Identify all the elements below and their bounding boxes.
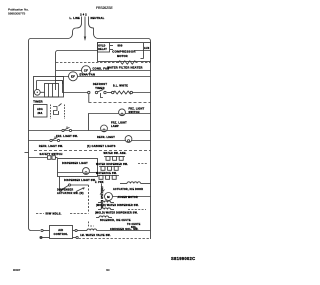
svg-text:5995305775: 5995305775 <box>8 12 25 16</box>
wire neutral-side from plug to right bus <box>89 23 151 239</box>
svg-text:I.M. WATER VALVE SW.: I.M. WATER VALVE SW. <box>80 234 111 237</box>
power plug P1 <box>80 13 88 23</box>
svg-text:FRZ. LIGHT SW.: FRZ. LIGHT SW. <box>56 135 78 138</box>
refr light lamp L2 <box>125 136 132 143</box>
svg-text:WATER FILTER HEATER: WATER FILTER HEATER <box>107 65 142 69</box>
vertical rotated door label <box>100 187 102 209</box>
node REFR. LIGHT SW. label <box>39 145 63 148</box>
svg-text:S8199002C: S8199002C <box>171 256 195 261</box>
water switch stack row1 <box>103 152 126 160</box>
wire defrost heater line <box>63 81 151 93</box>
svg-text:SWITCH: SWITCH <box>129 111 140 114</box>
node PNK label <box>95 182 104 184</box>
node DISPENSER LIGHT SW. label <box>64 179 96 182</box>
svg-text:(MOLD) WATER DISPENSER SW.: (MOLD) WATER DISPENSER SW. <box>96 204 139 207</box>
svg-text:J. PNK: J. PNK <box>95 182 104 184</box>
ice door coil wire <box>120 182 151 184</box>
cabinet boundary dashed mid <box>34 150 151 152</box>
node REFR. LIGHT label <box>97 136 115 139</box>
svg-text:DISPENSER LIGHT: DISPENSER LIGHT <box>62 162 88 165</box>
svg-text:EF: EF <box>71 75 75 79</box>
svg-text:COMPRESSOR: COMPRESSOR <box>112 50 136 54</box>
svg-text:A/D: A/D <box>58 228 63 232</box>
node header model text <box>96 6 113 10</box>
icemaker wire right upper <box>73 229 151 232</box>
wire freezer light line <box>29 130 151 132</box>
svg-text:50W MDLS.: 50W MDLS. <box>46 212 62 216</box>
defrost timer assembly box <box>34 77 64 98</box>
icemaker bracket dashed <box>89 222 95 227</box>
svg-text:30: 30 <box>106 268 110 272</box>
svg-text:WATER DISPENSER SW.: WATER DISPENSER SW. <box>96 163 128 166</box>
wire line-side from plug to left bus <box>29 23 82 231</box>
freezer light switch (door) on left <box>62 126 72 131</box>
evaporator fan motor M2 <box>69 72 78 81</box>
svg-text:CF: CF <box>84 69 88 73</box>
mold water dispenser sw row1 <box>96 201 139 207</box>
icemaker wire upper <box>41 229 50 231</box>
svg-text:M: M <box>107 195 110 199</box>
svg-text:ACTUATOR, ICE DOOR: ACTUATOR, ICE DOOR <box>113 188 143 191</box>
svg-text:WATER/ICE SW.: WATER/ICE SW. <box>96 172 117 175</box>
leader arrow to actuator switch <box>76 187 85 191</box>
defrost timer switch contacts <box>88 89 107 102</box>
node FRZ. LIGHT label <box>111 121 127 127</box>
node 50W MDLS note <box>36 212 88 216</box>
solenoid ice chute row <box>96 216 131 222</box>
node L.LINE label <box>69 16 80 20</box>
compressor labels <box>112 44 136 58</box>
compressor box U-COMP <box>98 43 151 62</box>
svg-text:L. LINE: L. LINE <box>69 16 80 20</box>
node footer date code <box>13 256 195 272</box>
feeder wire from line to compressor <box>56 51 98 85</box>
node FRZ. LIGHT SWITCH label <box>129 107 145 113</box>
water filter heater circuit (dash-dot) <box>56 62 151 64</box>
svg-text:WATER SW. ASM.: WATER SW. ASM. <box>103 152 126 155</box>
node DISPENSER ACTUATOR SW. label <box>57 189 84 196</box>
node TO CHUTE SOL label <box>127 224 141 229</box>
node WATER FILTER HEATER label <box>107 65 142 69</box>
auger motor switch <box>100 184 105 195</box>
node NEUTRAL label <box>91 16 105 20</box>
node CABINET LIGHTS label <box>87 145 116 148</box>
svg-text:LAMP: LAMP <box>111 125 119 128</box>
timer motor M3 <box>34 89 44 95</box>
svg-text:R697: R697 <box>13 268 21 272</box>
mold water dispenser sw row2 <box>95 208 146 215</box>
node CRUSHER SOL SW label <box>110 227 139 231</box>
svg-text:ADA: ADA <box>37 108 43 111</box>
node TIMER label <box>33 100 43 104</box>
svg-text:MOTOR: MOTOR <box>117 54 128 58</box>
wire condenser fan line <box>56 70 151 72</box>
svg-text:TIMER: TIMER <box>33 100 43 104</box>
svg-text:(MOLD) WATER DISPENSER SW.: (MOLD) WATER DISPENSER SW. <box>95 212 138 215</box>
node B.L. WHITE label <box>113 86 128 88</box>
refr light switch on left <box>50 136 60 141</box>
node ACTUATOR, ICE DOOR label <box>113 188 143 191</box>
svg-text:DEFROST: DEFROST <box>93 82 108 86</box>
node header publication text <box>8 8 29 16</box>
aux winding branch in compressor box <box>134 43 151 59</box>
svg-text:B.L. WHITE: B.L. WHITE <box>113 86 128 88</box>
freezer door boundary dashed vertical <box>88 185 90 214</box>
svg-text:EVAP. FAN: EVAP. FAN <box>80 73 96 77</box>
cabinet boundary dashed upper <box>89 102 151 104</box>
ADC control box <box>34 105 48 118</box>
wire freezer light switch line <box>89 114 151 131</box>
defrost heater HTR2 zigzag <box>112 91 133 94</box>
dispenser module box <box>58 159 98 177</box>
node FRZ. LIGHT SW. label <box>56 135 78 138</box>
svg-text:AUX: AUX <box>144 47 150 50</box>
wire safety switch line with connector <box>29 156 58 160</box>
wire evaporator fan line <box>56 76 151 78</box>
heater element HTR1 zigzag <box>117 61 138 64</box>
wire dispenser lamp line <box>58 172 98 174</box>
svg-text:20A: 20A <box>37 112 42 115</box>
auger motor M4 <box>105 193 151 201</box>
svg-text:NEUTRAL: NEUTRAL <box>91 16 105 20</box>
node DISPENSER LIGHT label <box>62 162 88 165</box>
svg-text:2 4 2: 2 4 2 <box>80 13 87 16</box>
svg-text:CONTROL: CONTROL <box>54 232 69 236</box>
svg-text:ACTUATOR SW. (R): ACTUATOR SW. (R) <box>57 192 84 195</box>
defrost thermostat bracket <box>51 104 65 120</box>
svg-text:RELAY: RELAY <box>98 48 107 51</box>
svg-text:SOLENOID, ICE CHUTE: SOLENOID, ICE CHUTE <box>100 220 131 222</box>
node COND. FAN label <box>93 66 110 70</box>
node AUGER MOTOR label <box>118 196 138 199</box>
svg-text:AUGER MOTOR: AUGER MOTOR <box>118 196 138 199</box>
water switch stack row3 <box>96 172 119 180</box>
svg-text:COND. FAN: COND. FAN <box>93 66 110 70</box>
node SAFETY SWITCH label <box>39 153 62 156</box>
svg-text:DISPENSER LIGHT SW.: DISPENSER LIGHT SW. <box>64 179 96 182</box>
freezer light switch SW1 <box>119 109 126 116</box>
node I.M. WATER VALVE SW label <box>80 234 111 237</box>
relay box inside compressor <box>98 43 114 53</box>
defrost timer contacts labels <box>93 82 108 90</box>
svg-text:FRS26ZSE: FRS26ZSE <box>96 6 113 10</box>
dispenser lamp L3 <box>83 168 90 175</box>
svg-text:REFR. LIGHT: REFR. LIGHT <box>97 136 115 139</box>
dispenser actuator switch <box>59 177 88 192</box>
left bus stub tick <box>25 152 29 154</box>
icemaker wire lower <box>40 236 78 238</box>
svg-text:DISPENSER: DISPENSER <box>57 189 73 192</box>
svg-text:REFR. LIGHT SW.: REFR. LIGHT SW. <box>39 145 63 148</box>
water switch stack row2 <box>96 163 148 171</box>
freezer light lamp L1 <box>101 125 108 132</box>
svg-text:OVLD: OVLD <box>98 45 105 47</box>
condenser fan motor M1 <box>82 66 91 75</box>
svg-text:(1) CABINET LIGHTS: (1) CABINET LIGHTS <box>87 145 116 148</box>
ground wire with arrow <box>84 22 86 41</box>
node EVAP. FAN label <box>80 73 96 77</box>
bottom dashed return wire <box>79 238 151 240</box>
svg-text:800: 800 <box>117 44 122 48</box>
svg-text:TO CHUTE: TO CHUTE <box>127 224 141 226</box>
wire refrigerator light line <box>29 140 151 142</box>
icemaker control box <box>50 226 73 239</box>
